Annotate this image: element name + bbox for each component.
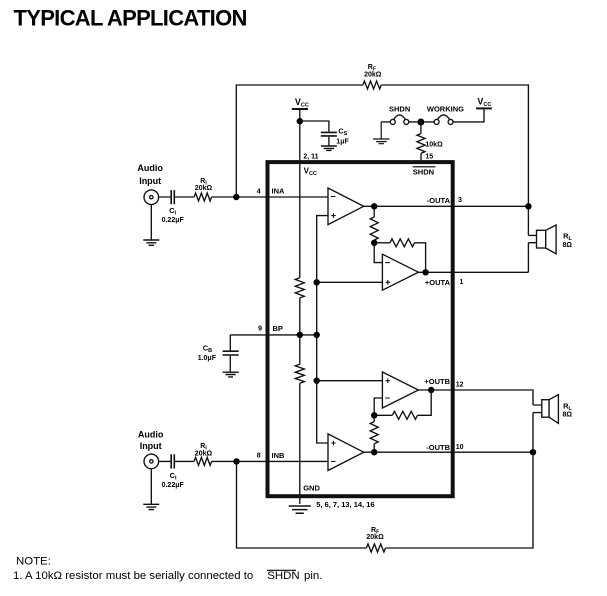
svg-text:WORKING: WORKING — [427, 105, 464, 114]
resistor divider lower — [295, 364, 304, 383]
svg-text:1: 1 — [460, 279, 464, 286]
ground (Cs) — [321, 146, 337, 150]
ground (jack B) — [143, 504, 159, 509]
node A2 output — [422, 269, 428, 275]
speaker RL B — [533, 405, 542, 413]
svg-text:1μF: 1μF — [336, 138, 349, 145]
node Vcc junction — [297, 118, 303, 124]
wire switch left — [381, 121, 390, 123]
svg-text:Audio: Audio — [138, 430, 164, 440]
svg-text:20kΩ: 20kΩ — [366, 534, 384, 541]
wire A2 output pin1 — [418, 271, 528, 273]
svg-text:1. A 10kΩ resistor must be ser: 1. A 10kΩ resistor must be serially conn… — [13, 570, 322, 582]
wire A1 output — [364, 205, 375, 207]
node A fb — [371, 240, 377, 246]
op-amp B2 — [382, 372, 418, 408]
node BP divider — [297, 332, 303, 338]
wire 10k to pin15 — [420, 153, 422, 161]
op-amp A1 — [328, 188, 364, 225]
wire bias vertical — [317, 335, 328, 443]
svg-text:Audio: Audio — [137, 163, 163, 173]
IC body U1 — [268, 162, 453, 496]
svg-text:20kΩ: 20kΩ — [364, 72, 382, 79]
svg-text:+OUTA: +OUTA — [425, 278, 451, 287]
resistor B fb horizontal — [374, 390, 431, 419]
resistor divider upper — [295, 278, 304, 298]
node switch center — [417, 119, 424, 126]
node A2 + junction — [314, 279, 320, 285]
svg-text:TYPICAL APPLICATION: TYPICAL APPLICATION — [14, 5, 247, 30]
svg-text:8: 8 — [257, 453, 261, 460]
svg-text:4: 4 — [257, 189, 261, 196]
wire INB line — [159, 460, 328, 462]
wire B fb to B2 minus — [374, 398, 382, 415]
wire B1 output pin10 — [364, 451, 533, 453]
node B2 + junction — [314, 378, 320, 384]
svg-text:1.0μF: 1.0μF — [198, 355, 217, 362]
wire CB drop — [229, 335, 231, 351]
ground (CB) — [223, 372, 239, 377]
svg-text:INB: INB — [272, 451, 286, 460]
wire center dot to 10k — [420, 122, 422, 134]
resistor A fb horizontal — [374, 239, 425, 272]
svg-text:SHDN: SHDN — [413, 167, 434, 176]
wire BP line — [230, 334, 316, 336]
node B1 output — [371, 449, 377, 455]
node pin3 junction — [525, 203, 531, 209]
resistor RF (bottom) — [366, 544, 385, 552]
wire A fb to A2 minus — [374, 243, 382, 263]
audio input jack A — [144, 190, 159, 205]
resistor B fb vertical — [370, 415, 378, 452]
svg-text:+OUTB: +OUTB — [424, 377, 450, 386]
node A1 output — [371, 203, 377, 209]
wire INA line — [159, 196, 328, 198]
svg-text:-OUTB: -OUTB — [426, 443, 450, 452]
wire jack A to ground — [150, 205, 152, 241]
wire jack B to ground — [150, 469, 152, 505]
ground (IC GND) — [289, 506, 311, 513]
svg-text:5, 6, 7, 13, 14, 16: 5, 6, 7, 13, 14, 16 — [316, 500, 374, 509]
wire CB to ground — [229, 356, 231, 372]
svg-text:0.22μF: 0.22μF — [162, 217, 185, 224]
svg-text:Input: Input — [140, 441, 162, 451]
wire B2 output pin12 — [418, 390, 533, 405]
svg-text:0.22μF: 0.22μF — [162, 482, 185, 489]
wire -OUTA pin3 — [374, 205, 528, 207]
svg-text:20kΩ: 20kΩ — [195, 185, 213, 192]
resistor Ri (bottom) — [194, 457, 212, 465]
node INA junction — [233, 194, 239, 200]
node B fb — [371, 412, 377, 418]
speaker RL A — [528, 235, 536, 242]
power Vcc (switch right) — [476, 107, 492, 109]
ground (switch) — [373, 122, 389, 144]
svg-text:2, 11: 2, 11 — [303, 154, 318, 161]
capacitor Ci (top) — [171, 190, 174, 204]
wire A1 + input — [317, 216, 328, 335]
resistor RF (top) — [363, 81, 381, 89]
capacitor Ci (bottom) — [171, 454, 174, 468]
svg-text:10: 10 — [456, 444, 464, 451]
wire A2 + input — [317, 281, 383, 283]
wire Vcc to Cs — [300, 121, 329, 132]
wire to Vcc right — [453, 109, 484, 122]
wire speaker B to pin10 — [532, 413, 534, 453]
wire B2 + input — [317, 380, 383, 382]
svg-text:GND: GND — [303, 483, 320, 492]
node BP bias — [314, 332, 320, 338]
node pin10 junction — [530, 449, 536, 455]
svg-text:BP: BP — [273, 324, 283, 333]
svg-text:8Ω: 8Ω — [563, 242, 573, 249]
svg-text:9: 9 — [258, 326, 262, 333]
op-amp B1 — [328, 434, 364, 471]
svg-text:NOTE:: NOTE: — [16, 555, 51, 567]
node INB junction — [233, 458, 239, 464]
svg-text:20kΩ: 20kΩ — [195, 450, 213, 457]
svg-text:15: 15 — [425, 154, 433, 161]
capacitor Cs — [321, 132, 337, 136]
wire pin3 to speaker A — [527, 206, 529, 235]
resistor A fb vertical — [370, 210, 378, 243]
wire Cs to ground — [328, 137, 330, 146]
ground (jack A) — [143, 240, 159, 245]
switch WORKING contacts — [434, 119, 439, 124]
svg-text:-OUTA: -OUTA — [427, 196, 451, 205]
svg-text:8Ω: 8Ω — [563, 412, 573, 419]
svg-text:3: 3 — [458, 197, 462, 204]
wire top RF loop — [236, 85, 528, 206]
switch SHDN contacts — [390, 119, 395, 124]
resistor Ri (top) — [194, 193, 212, 201]
svg-text:SHDN: SHDN — [389, 105, 410, 114]
svg-text:12: 12 — [456, 382, 464, 389]
capacitor CB — [223, 351, 239, 355]
svg-text:Input: Input — [139, 176, 161, 186]
svg-text:INA: INA — [272, 187, 286, 196]
wire Vcc stem into IC — [299, 109, 301, 161]
resistor 10kOhm — [417, 134, 425, 154]
svg-text:10kΩ: 10kΩ — [425, 141, 443, 148]
wire speaker A to pin1 — [527, 243, 529, 273]
audio input jack B — [144, 454, 159, 469]
wire contacts to center — [409, 121, 434, 123]
power Vcc (top) — [292, 108, 308, 110]
op-amp A2 — [382, 254, 418, 290]
node B2 output — [428, 387, 434, 393]
wire bottom RF loop — [237, 452, 534, 548]
wire internal Vcc/divider line — [299, 161, 301, 504]
